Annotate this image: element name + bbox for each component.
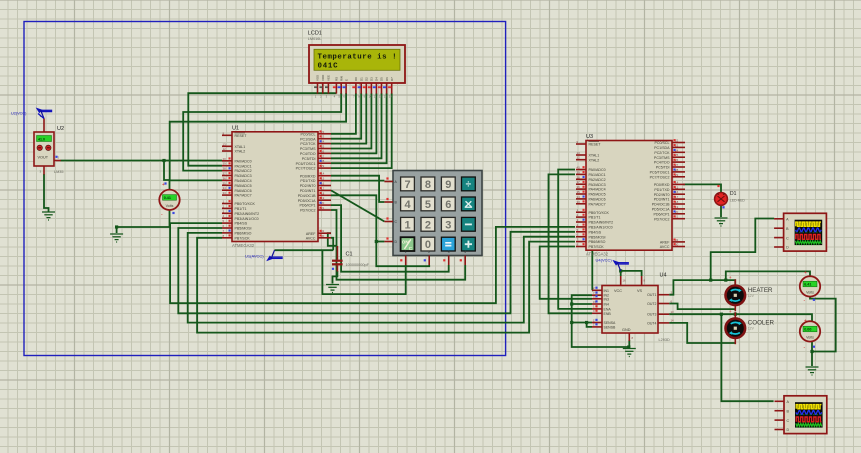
svg-text:PB6/MISO: PB6/MISO xyxy=(589,240,606,244)
svg-text:PC4/TDO: PC4/TDO xyxy=(654,161,670,165)
svg-text:AREF: AREF xyxy=(306,232,316,236)
wire VM gnd down xyxy=(811,352,813,367)
svg-text:D1: D1 xyxy=(730,191,737,197)
voltmeter left xyxy=(159,190,179,210)
svg-text:PA5/ADC5: PA5/ADC5 xyxy=(235,184,252,188)
temperature sensor U2 LM35 xyxy=(34,114,64,175)
wire D1 to gnd xyxy=(720,206,722,218)
svg-text:Volts: Volts xyxy=(806,336,814,340)
svg-text:1: 1 xyxy=(404,219,410,231)
svg-text:PB0/T0/XCK: PB0/T0/XCK xyxy=(589,211,610,215)
wire bus U1-U3 3 xyxy=(188,233,575,323)
svg-text:34: 34 xyxy=(223,186,227,190)
svg-text:VSS: VSS xyxy=(316,75,320,81)
wire U1 PD3 to keypad C diagonal xyxy=(331,190,384,221)
svg-text:33: 33 xyxy=(577,200,581,204)
svg-text:PB6/MISO: PB6/MISO xyxy=(235,232,252,236)
svg-text:+: + xyxy=(729,309,732,314)
motor COOLER xyxy=(726,312,775,344)
wire SENSB branch xyxy=(587,323,592,327)
wire U3 PD0 to D1 xyxy=(683,184,721,192)
wire OUT4 to COOLER- xyxy=(669,323,735,343)
svg-text:12: 12 xyxy=(223,147,227,151)
wire LM35 VOUT to U1 PA0 xyxy=(61,160,223,162)
ground D1 ground xyxy=(715,218,728,226)
svg-text:OUT1: OUT1 xyxy=(647,293,656,297)
keypad calculator 4x4 xyxy=(384,171,482,266)
microcontroller U1 ATMEGA32 xyxy=(222,125,331,248)
wire U1 PD4 to keypad D and col2 xyxy=(331,195,429,266)
svg-text:12: 12 xyxy=(577,156,581,160)
wire VM1 tap xyxy=(726,271,810,280)
junction COOLER top junction xyxy=(734,313,737,316)
svg-text:PC7/TOSC2: PC7/TOSC2 xyxy=(296,167,316,171)
svg-text:LED-RED: LED-RED xyxy=(730,199,745,203)
svg-text:PC0/SCL: PC0/SCL xyxy=(655,141,670,145)
svg-text:PB3/AIN1/OC0: PB3/AIN1/OC0 xyxy=(589,226,613,230)
svg-text:IN4: IN4 xyxy=(604,303,610,307)
svg-text:4: 4 xyxy=(464,250,466,254)
svg-text:PC3/TMS: PC3/TMS xyxy=(300,147,316,151)
wire U4 VCC link xyxy=(620,271,622,276)
svg-text:PC3/TMS: PC3/TMS xyxy=(654,156,670,160)
svg-text:PA4/ADC4: PA4/ADC4 xyxy=(235,179,252,183)
svg-text:PA1/ADC1: PA1/ADC1 xyxy=(235,164,252,168)
wire LCD D1 to U1 PC1 xyxy=(331,93,361,139)
svg-text:PD2/INT0: PD2/INT0 xyxy=(654,193,670,197)
svg-text:PA6/ADC6: PA6/ADC6 xyxy=(235,189,252,193)
svg-text:ATMEGA32: ATMEGA32 xyxy=(232,243,255,248)
svg-text:COOLER: COOLER xyxy=(748,320,775,327)
svg-text:PA2/ADC2: PA2/ADC2 xyxy=(235,169,252,173)
svg-text:PD4/OC1B: PD4/OC1B xyxy=(652,203,670,207)
wire LCD E to U1 PA4 xyxy=(170,93,346,180)
wire LCD D4 to U1 PC4 xyxy=(331,93,376,153)
svg-text:PB1/T1: PB1/T1 xyxy=(235,207,247,211)
wire U3 PA0 to U4 ENA xyxy=(558,170,592,309)
svg-text:PD5/OC1A: PD5/OC1A xyxy=(298,199,316,203)
LED D1 LED-RED xyxy=(715,191,746,205)
junction SENSA junction2 xyxy=(585,321,588,324)
wire keypad D branch xyxy=(376,241,384,243)
wire U1 AREF to C1 xyxy=(328,233,338,246)
wire U1 PD6 to col3 xyxy=(331,205,449,272)
power flag U4(VCC) xyxy=(596,258,629,271)
svg-text:XTAL1: XTAL1 xyxy=(235,145,246,149)
power flag U1(AVCC) xyxy=(245,250,283,261)
svg-text:VS: VS xyxy=(637,289,643,293)
svg-text:37: 37 xyxy=(577,180,581,184)
wire LCD D2 to U1 PC2 xyxy=(331,93,366,143)
svg-text:PC5/TDI: PC5/TDI xyxy=(656,166,670,170)
svg-text:0.41: 0.41 xyxy=(164,196,171,200)
svg-text:PD0/RXD: PD0/RXD xyxy=(300,174,316,178)
voltmeter heater xyxy=(800,276,820,296)
svg-text:PD5/OC1A: PD5/OC1A xyxy=(652,208,670,212)
svg-text:U4: U4 xyxy=(660,273,667,279)
svg-text:U4(VCC): U4(VCC) xyxy=(596,258,613,263)
svg-text:PD4/OC1B: PD4/OC1B xyxy=(298,194,316,198)
svg-text:PD6/ICP1: PD6/ICP1 xyxy=(654,212,670,216)
wire U1 PD1 to keypad A xyxy=(331,180,384,182)
svg-text:ATMEGA32: ATMEGA32 xyxy=(586,252,609,257)
wire osc2 tap xyxy=(721,314,773,401)
wire LM35 pin3 down xyxy=(44,174,49,212)
svg-text:PB7/SCK: PB7/SCK xyxy=(235,236,251,240)
svg-text:D3: D3 xyxy=(370,77,374,81)
svg-text:AVCC: AVCC xyxy=(306,236,316,240)
svg-text:VEE: VEE xyxy=(327,75,331,81)
wire U4 IN4 branch xyxy=(572,303,592,305)
svg-text:PB2/AIN0/INT2: PB2/AIN0/INT2 xyxy=(589,221,614,225)
svg-text:PB7/SCK: PB7/SCK xyxy=(589,245,605,249)
svg-text:36: 36 xyxy=(577,185,581,189)
svg-text:RESET: RESET xyxy=(235,134,248,138)
wire U4 IN2/SENS bundle xyxy=(572,295,630,347)
svg-text:PD7/OC2: PD7/OC2 xyxy=(300,209,315,213)
svg-text:9: 9 xyxy=(445,179,451,191)
wire AVCC power link xyxy=(275,249,334,251)
svg-text:PD7/OC2: PD7/OC2 xyxy=(654,217,669,221)
svg-text:PA5/ADC5: PA5/ADC5 xyxy=(589,193,606,197)
svg-text:SENSA: SENSA xyxy=(604,321,617,325)
svg-text:8: 8 xyxy=(425,179,431,191)
svg-text:PC2/TCK: PC2/TCK xyxy=(300,142,316,146)
power flag xyxy=(36,108,53,119)
wire bus U1-U3 1 xyxy=(170,223,575,303)
wire LCD D3 to U1 PC3 xyxy=(331,93,371,148)
svg-text:HEATER: HEATER xyxy=(748,287,773,294)
svg-text:PA7/ADC7: PA7/ADC7 xyxy=(235,194,252,198)
wire LCD D7 to U1 PC7 xyxy=(331,93,392,168)
svg-text:1’: 1’ xyxy=(593,318,596,322)
junction osc2 tap junction xyxy=(720,313,723,316)
svg-text:13: 13 xyxy=(384,95,388,99)
svg-text:D5: D5 xyxy=(380,77,384,81)
svg-text:PB3/AIN1/OC0: PB3/AIN1/OC0 xyxy=(235,217,259,221)
svg-text:41.0: 41.0 xyxy=(38,137,45,141)
svg-text:PC6/TOSC1: PC6/TOSC1 xyxy=(296,162,316,166)
ground VM ground xyxy=(806,367,819,375)
svg-text:14: 14 xyxy=(671,319,675,323)
junction SENSA junction1 xyxy=(570,321,573,324)
svg-text:34: 34 xyxy=(577,195,581,199)
svg-text:14: 14 xyxy=(389,95,393,99)
svg-text:PD3/INT1: PD3/INT1 xyxy=(300,189,316,193)
svg-text:PC5/TDI: PC5/TDI xyxy=(302,157,316,161)
junction U4 gnd junction xyxy=(627,345,630,348)
svg-text:OUT2: OUT2 xyxy=(647,302,656,306)
wire U3 PB7 to U4 IN3 xyxy=(540,247,592,299)
svg-text:LM016L: LM016L xyxy=(308,37,322,41)
svg-text:C: C xyxy=(786,236,789,240)
svg-text:LM35: LM35 xyxy=(54,170,64,174)
svg-text:VDD: VDD xyxy=(321,74,325,81)
svg-text:10: 10 xyxy=(369,95,373,99)
microcontroller U3 ATMEGA32 xyxy=(576,134,685,257)
svg-text:D0: D0 xyxy=(354,77,358,81)
svg-text:PD0/RXD: PD0/RXD xyxy=(654,183,670,187)
svg-text:13: 13 xyxy=(671,310,675,314)
svg-text:PB4/SS: PB4/SS xyxy=(589,230,602,234)
junction vm gnd corner xyxy=(115,225,118,228)
svg-text:D2: D2 xyxy=(365,77,369,81)
wire U1 PD7 to col4 xyxy=(331,210,465,280)
svg-text:35: 35 xyxy=(223,181,227,185)
svg-text:0.00: 0.00 xyxy=(804,328,811,332)
svg-text:U1(AVCC): U1(AVCC) xyxy=(245,254,264,259)
svg-text:D1: D1 xyxy=(359,77,363,81)
svg-text:041C: 041C xyxy=(318,63,339,71)
oscilloscope bottom xyxy=(775,396,827,434)
svg-text:PA0/ADC0: PA0/ADC0 xyxy=(589,168,606,172)
svg-text:OUT4: OUT4 xyxy=(647,321,656,325)
svg-text:40: 40 xyxy=(577,166,581,170)
sheet border frame xyxy=(24,22,506,356)
junction IN4 junction xyxy=(570,302,573,305)
svg-text:÷: ÷ xyxy=(466,180,472,191)
svg-text:ENA: ENA xyxy=(604,307,612,311)
wire VM1 minus loop xyxy=(810,297,836,352)
svg-text:16: 16 xyxy=(623,279,627,283)
svg-text:D7: D7 xyxy=(390,77,394,81)
svg-text:PA3/ADC3: PA3/ADC3 xyxy=(589,183,606,187)
svg-text:PA7/ADC7: PA7/ADC7 xyxy=(589,202,606,206)
svg-text:PB0/T0/XCK: PB0/T0/XCK xyxy=(235,202,256,206)
motor driver U4 L293D xyxy=(592,273,674,343)
ground LM35 ground xyxy=(42,212,55,220)
wire LCD RS to U1 PA1 xyxy=(188,93,336,166)
svg-text:3: 3 xyxy=(448,250,450,254)
svg-text:RS: RS xyxy=(335,77,339,81)
svg-text:Temperature is !: Temperature is ! xyxy=(318,54,397,62)
svg-text:37: 37 xyxy=(223,172,227,176)
ground U4 ground xyxy=(623,349,636,357)
svg-text:U2(VCC): U2(VCC) xyxy=(11,112,27,116)
svg-text:35: 35 xyxy=(577,190,581,194)
svg-text:38: 38 xyxy=(577,175,581,179)
svg-text:IN1: IN1 xyxy=(604,289,610,293)
wire LCD D0 to U1 PC0 xyxy=(331,93,356,134)
svg-text:D6: D6 xyxy=(385,77,389,81)
svg-text:PB5/MOSI: PB5/MOSI xyxy=(235,227,252,231)
svg-text:D4: D4 xyxy=(375,77,379,81)
svg-text:PB2/AIN0/INT2: PB2/AIN0/INT2 xyxy=(235,212,260,216)
svg-text:PD2/INT0: PD2/INT0 xyxy=(300,184,316,188)
junction U4 VCC junction xyxy=(619,269,622,272)
wire VM2 minus xyxy=(811,342,813,352)
svg-text:PA0/ADC0: PA0/ADC0 xyxy=(235,159,252,163)
wire U1 PD0 to keypad B xyxy=(331,176,384,202)
svg-text:RESET: RESET xyxy=(589,143,602,147)
svg-text:U1: U1 xyxy=(232,125,239,131)
svg-text:PA3/ADC3: PA3/ADC3 xyxy=(235,174,252,178)
svg-text:OUT3: OUT3 xyxy=(647,313,656,317)
wire voltmeter to ground xyxy=(117,210,170,233)
svg-text:7: 7 xyxy=(404,179,410,191)
svg-text:VCC: VCC xyxy=(614,289,622,293)
voltmeter cooler xyxy=(800,321,820,341)
svg-text:PC2/TCK: PC2/TCK xyxy=(654,151,670,155)
svg-text:D: D xyxy=(786,246,789,250)
svg-text:100000000pF: 100000000pF xyxy=(346,263,370,267)
svg-text:PC1/SDA: PC1/SDA xyxy=(654,146,670,150)
wire U4 GND down xyxy=(628,340,630,348)
svg-text:1: 1 xyxy=(405,250,407,254)
svg-text:39: 39 xyxy=(577,170,581,174)
svg-text:13: 13 xyxy=(577,151,581,155)
junction osc tap junction xyxy=(709,279,712,282)
svg-text:1’: 1’ xyxy=(593,323,596,327)
wire OUT2 to HEATER- xyxy=(669,304,735,310)
svg-text:PA6/ADC6: PA6/ADC6 xyxy=(589,198,606,202)
wire LCD D5 to U1 PC5 xyxy=(331,93,382,158)
svg-text:40: 40 xyxy=(223,157,227,161)
svg-text:12V: 12V xyxy=(748,327,755,331)
svg-text:XTAL1: XTAL1 xyxy=(589,154,600,158)
svg-text:XTAL2: XTAL2 xyxy=(589,158,600,162)
svg-text:2: 2 xyxy=(425,219,431,231)
svg-text:C: C xyxy=(787,419,790,423)
LCD1 LM016L display xyxy=(308,31,405,99)
wire LCD D6 to U1 PC6 xyxy=(331,93,387,163)
svg-text:13: 13 xyxy=(223,142,227,146)
svg-text:PC4/TDO: PC4/TDO xyxy=(300,152,316,156)
svg-text:IN3: IN3 xyxy=(604,297,610,301)
wire U1 AVCC net xyxy=(331,238,333,250)
svg-text:ENB: ENB xyxy=(604,312,612,316)
ground C1 ground xyxy=(326,285,339,293)
svg-text:PD1/TXD: PD1/TXD xyxy=(300,179,316,183)
svg-text:AREF: AREF xyxy=(660,241,670,245)
wire U4 IN1 feed xyxy=(591,251,593,291)
svg-text:VOUT: VOUT xyxy=(38,156,49,160)
svg-text:PA1/ADC1: PA1/ADC1 xyxy=(589,173,606,177)
oscilloscope top xyxy=(774,213,826,251)
svg-text:XTAL2: XTAL2 xyxy=(235,150,246,154)
svg-text:PC1/SDA: PC1/SDA xyxy=(300,137,316,141)
svg-text:D: D xyxy=(787,428,790,432)
svg-text:PC6/TOSC1: PC6/TOSC1 xyxy=(650,171,670,175)
svg-text:39: 39 xyxy=(223,162,227,166)
svg-text:3: 3 xyxy=(445,219,451,231)
wire bus U1-U3 2 xyxy=(178,228,575,313)
svg-text:12V: 12V xyxy=(748,294,755,298)
svg-text:+: + xyxy=(804,319,807,325)
svg-text:33: 33 xyxy=(223,191,227,195)
svg-text:38: 38 xyxy=(223,167,227,171)
svg-text:6: 6 xyxy=(445,199,451,211)
svg-text:L293D: L293D xyxy=(659,338,670,342)
wire bus U1-U3 4 xyxy=(197,238,575,333)
wire C1 bottom to gnd xyxy=(333,271,338,284)
svg-text:6.41: 6.41 xyxy=(804,283,811,287)
svg-text:RW: RW xyxy=(339,76,343,81)
svg-text:PD1/TXD: PD1/TXD xyxy=(654,188,670,192)
wire col1 feed xyxy=(322,250,405,294)
svg-text:4: 4 xyxy=(404,199,411,211)
svg-text:+: + xyxy=(729,275,732,280)
wire voltmeter tap xyxy=(164,161,170,190)
wire osc1 tap xyxy=(711,219,775,281)
svg-text:2: 2 xyxy=(428,250,430,254)
junction keypad D junction xyxy=(375,240,378,243)
svg-text:36: 36 xyxy=(223,176,227,180)
svg-text:Volts: Volts xyxy=(806,291,814,295)
svg-text:PA4/ADC4: PA4/ADC4 xyxy=(589,188,606,192)
svg-text:+: + xyxy=(804,270,807,276)
wire OUT3 to COOLER/VM2 xyxy=(669,314,812,321)
wire SENSA branch xyxy=(572,322,592,324)
svg-text:PB1/T1: PB1/T1 xyxy=(589,216,601,220)
svg-text:PC0/SCL: PC0/SCL xyxy=(301,132,316,136)
wire LCD RW to U1 PA2 xyxy=(183,93,341,171)
wire OUT1 to HEATER xyxy=(669,280,735,295)
svg-text:LCD1: LCD1 xyxy=(308,31,322,37)
svg-text:5: 5 xyxy=(425,199,431,211)
svg-text:C1: C1 xyxy=(346,252,353,258)
svg-text:PB4/SS: PB4/SS xyxy=(235,222,248,226)
svg-text:12: 12 xyxy=(379,95,383,99)
wire U4 VS link xyxy=(621,271,642,276)
svg-text:PC7/TOSC2: PC7/TOSC2 xyxy=(650,175,670,179)
svg-text:PD3/INT1: PD3/INT1 xyxy=(654,198,670,202)
ground voltmeter ground xyxy=(110,234,123,242)
svg-text:E: E xyxy=(344,79,348,81)
capacitor C1 xyxy=(332,246,370,272)
svg-text:PB5/MOSI: PB5/MOSI xyxy=(589,235,606,239)
svg-text:AVCC: AVCC xyxy=(660,245,670,249)
svg-text:GND: GND xyxy=(622,328,631,332)
svg-text:U3: U3 xyxy=(586,134,593,140)
svg-text:PD6/ICP1: PD6/ICP1 xyxy=(300,204,316,208)
svg-text:SENSB: SENSB xyxy=(604,325,617,329)
junction VM1 tap junction xyxy=(724,279,727,282)
svg-text:11: 11 xyxy=(374,95,377,99)
svg-text:PA2/ADC2: PA2/ADC2 xyxy=(589,178,606,182)
junction VOUT junction xyxy=(162,159,165,162)
junction VM gnd junction xyxy=(810,350,813,353)
wire U3 PA1 to U4 ENB xyxy=(549,174,593,313)
motor HEATER xyxy=(726,279,773,311)
svg-text:U2: U2 xyxy=(57,126,64,132)
svg-text:Volts: Volts xyxy=(166,204,174,208)
